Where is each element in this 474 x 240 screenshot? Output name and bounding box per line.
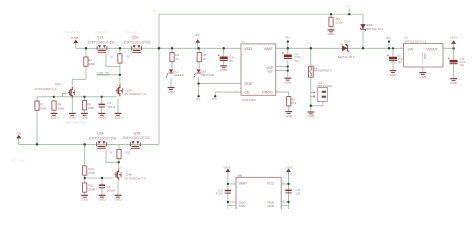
svg-text:GND: GND <box>99 198 107 202</box>
svg-text:Q1A: Q1A <box>97 35 104 39</box>
svg-text:16V: 16V <box>295 60 300 63</box>
svg-text:R2: R2 <box>127 55 131 59</box>
svg-text:U$5: U$5 <box>152 10 157 13</box>
svg-text:GND: GND <box>98 116 106 120</box>
svg-text:100nF: 100nF <box>107 189 116 193</box>
svg-text:16V: 16V <box>398 61 403 64</box>
svg-text:GND: GND <box>220 68 228 72</box>
svg-text:VDD: VDD <box>244 47 252 51</box>
svg-text:100K: 100K <box>88 187 95 191</box>
svg-text:ORANGE: ORANGE <box>201 73 214 77</box>
svg-text:100nF: 100nF <box>107 105 116 109</box>
svg-text:USB_VBUS: USB_VBUS <box>63 30 78 34</box>
svg-text:+3V3: +3V3 <box>223 165 230 169</box>
svg-text:F1: F1 <box>314 66 318 70</box>
svg-text:+5V: +5V <box>194 33 199 37</box>
svg-text:TP6: TP6 <box>212 98 217 101</box>
svg-text:MCP73831: MCP73831 <box>242 98 256 102</box>
svg-text:R12: R12 <box>126 150 131 154</box>
svg-text:TP4: TP4 <box>386 37 391 40</box>
svg-text:Q1B: Q1B <box>132 35 139 39</box>
svg-text:2N7002DW-7-F: 2N7002DW-7-F <box>124 176 146 180</box>
svg-text:D1B: D1B <box>367 23 373 27</box>
svg-text:TP5: TP5 <box>196 98 201 101</box>
svg-text:100K: 100K <box>58 106 65 110</box>
svg-text:2N7002DW-7-F: 2N7002DW-7-F <box>35 87 57 91</box>
svg-text:GND: GND <box>450 81 458 85</box>
svg-text:2N7002DW-7-F: 2N7002DW-7-F <box>124 92 146 96</box>
svg-text:GND: GND <box>69 116 77 120</box>
svg-text:DMP2160UFDB: DMP2160UFDB <box>123 136 151 140</box>
svg-text:VIN: VIN <box>408 47 414 51</box>
svg-text:GND: GND <box>284 80 292 84</box>
svg-text:Q3B: Q3B <box>134 132 141 136</box>
svg-text:VCC: VCC <box>267 182 275 186</box>
svg-text:STAT: STAT <box>244 82 253 86</box>
svg-text:100K: 100K <box>88 171 95 175</box>
svg-text:AP7215-33YG-13: AP7215-33YG-13 <box>404 39 427 43</box>
svg-text:U1: U1 <box>241 40 245 44</box>
svg-text:DMP2160UFDB: DMP2160UFDB <box>88 40 116 44</box>
svg-text:GND: GND <box>419 75 427 79</box>
svg-text:BAT54C-7D-F: BAT54C-7D-F <box>338 55 355 59</box>
svg-text:GND: GND <box>115 198 123 202</box>
svg-text:GND: GND <box>390 73 398 77</box>
svg-text:GND: GND <box>285 114 293 118</box>
svg-text:VBAT: VBAT <box>264 47 274 51</box>
svg-text:GND: GND <box>51 116 59 120</box>
svg-text:GND: GND <box>328 32 336 36</box>
svg-text:GND: GND <box>168 90 176 94</box>
svg-text:PWR_5V: PWR_5V <box>125 30 137 34</box>
svg-text:1K: 1K <box>203 57 207 61</box>
svg-text:VROUT: VROUT <box>426 47 438 51</box>
svg-text:+3V3: +3V3 <box>285 165 292 169</box>
svg-text:GND: GND <box>307 114 315 118</box>
svg-text:Q3A: Q3A <box>97 132 104 136</box>
svg-text:100K: 100K <box>40 106 47 110</box>
svg-text:47uF: 47uF <box>229 56 235 59</box>
svg-text:VBAT: VBAT <box>239 182 247 186</box>
svg-text:D1A: D1A <box>344 40 350 44</box>
svg-text:VB: VB <box>346 4 350 8</box>
svg-text:16V: 16V <box>229 60 234 63</box>
svg-text:USB_5V: USB_5V <box>97 71 110 75</box>
svg-text:GND: GND <box>423 54 427 60</box>
svg-text:+3V3: +3V3 <box>450 36 457 40</box>
svg-text:S08-2N-20W: S08-2N-20W <box>318 85 333 88</box>
svg-text:DMP2160UFDB: DMP2160UFDB <box>89 137 117 141</box>
svg-text:USB_5V0: USB_5V0 <box>95 30 108 34</box>
svg-text:1K: 1K <box>175 57 179 61</box>
svg-text:CE: CE <box>244 91 250 95</box>
svg-text:4.7uF: 4.7uF <box>216 192 223 196</box>
svg-text:Q2A: Q2A <box>55 82 61 86</box>
svg-text:DMP2160UFDB: DMP2160UFDB <box>124 40 152 44</box>
svg-text:U3B: U3B <box>237 174 243 178</box>
svg-text:GND: GND <box>81 198 89 202</box>
svg-text:16V: 16V <box>460 64 465 67</box>
svg-text:1K: 1K <box>109 150 112 154</box>
svg-text:GREEN: GREEN <box>173 73 184 77</box>
svg-text:VIN: VIN <box>16 131 21 135</box>
svg-text:GND: GND <box>267 204 275 208</box>
svg-text:100K: 100K <box>336 21 343 25</box>
svg-text:VUSB: VUSB <box>71 36 79 40</box>
svg-text:47uF: 47uF <box>295 56 301 59</box>
svg-text:PROG: PROG <box>262 91 273 95</box>
svg-text:GND: GND <box>239 204 247 208</box>
svg-text:100K: 100K <box>88 62 95 66</box>
svg-text:BAT_RAW: BAT_RAW <box>12 158 26 162</box>
svg-text:GND: GND <box>81 116 89 120</box>
svg-text:MF-FSMF050X-2: MF-FSMF050X-2 <box>314 71 332 73</box>
svg-text:GND: GND <box>115 116 123 120</box>
svg-text:1K: 1K <box>110 55 113 59</box>
svg-text:1uF: 1uF <box>295 192 300 196</box>
svg-text:TP2: TP2 <box>285 37 290 40</box>
svg-text:VBAT_SW_5V0: VBAT_SW_5V0 <box>64 120 86 124</box>
svg-text:BAT54C-7D-F: BAT54C-7D-F <box>367 27 384 31</box>
svg-text:2K2: 2K2 <box>291 101 297 105</box>
svg-text:100K: 100K <box>87 106 94 110</box>
svg-text:EP: EP <box>269 70 273 74</box>
